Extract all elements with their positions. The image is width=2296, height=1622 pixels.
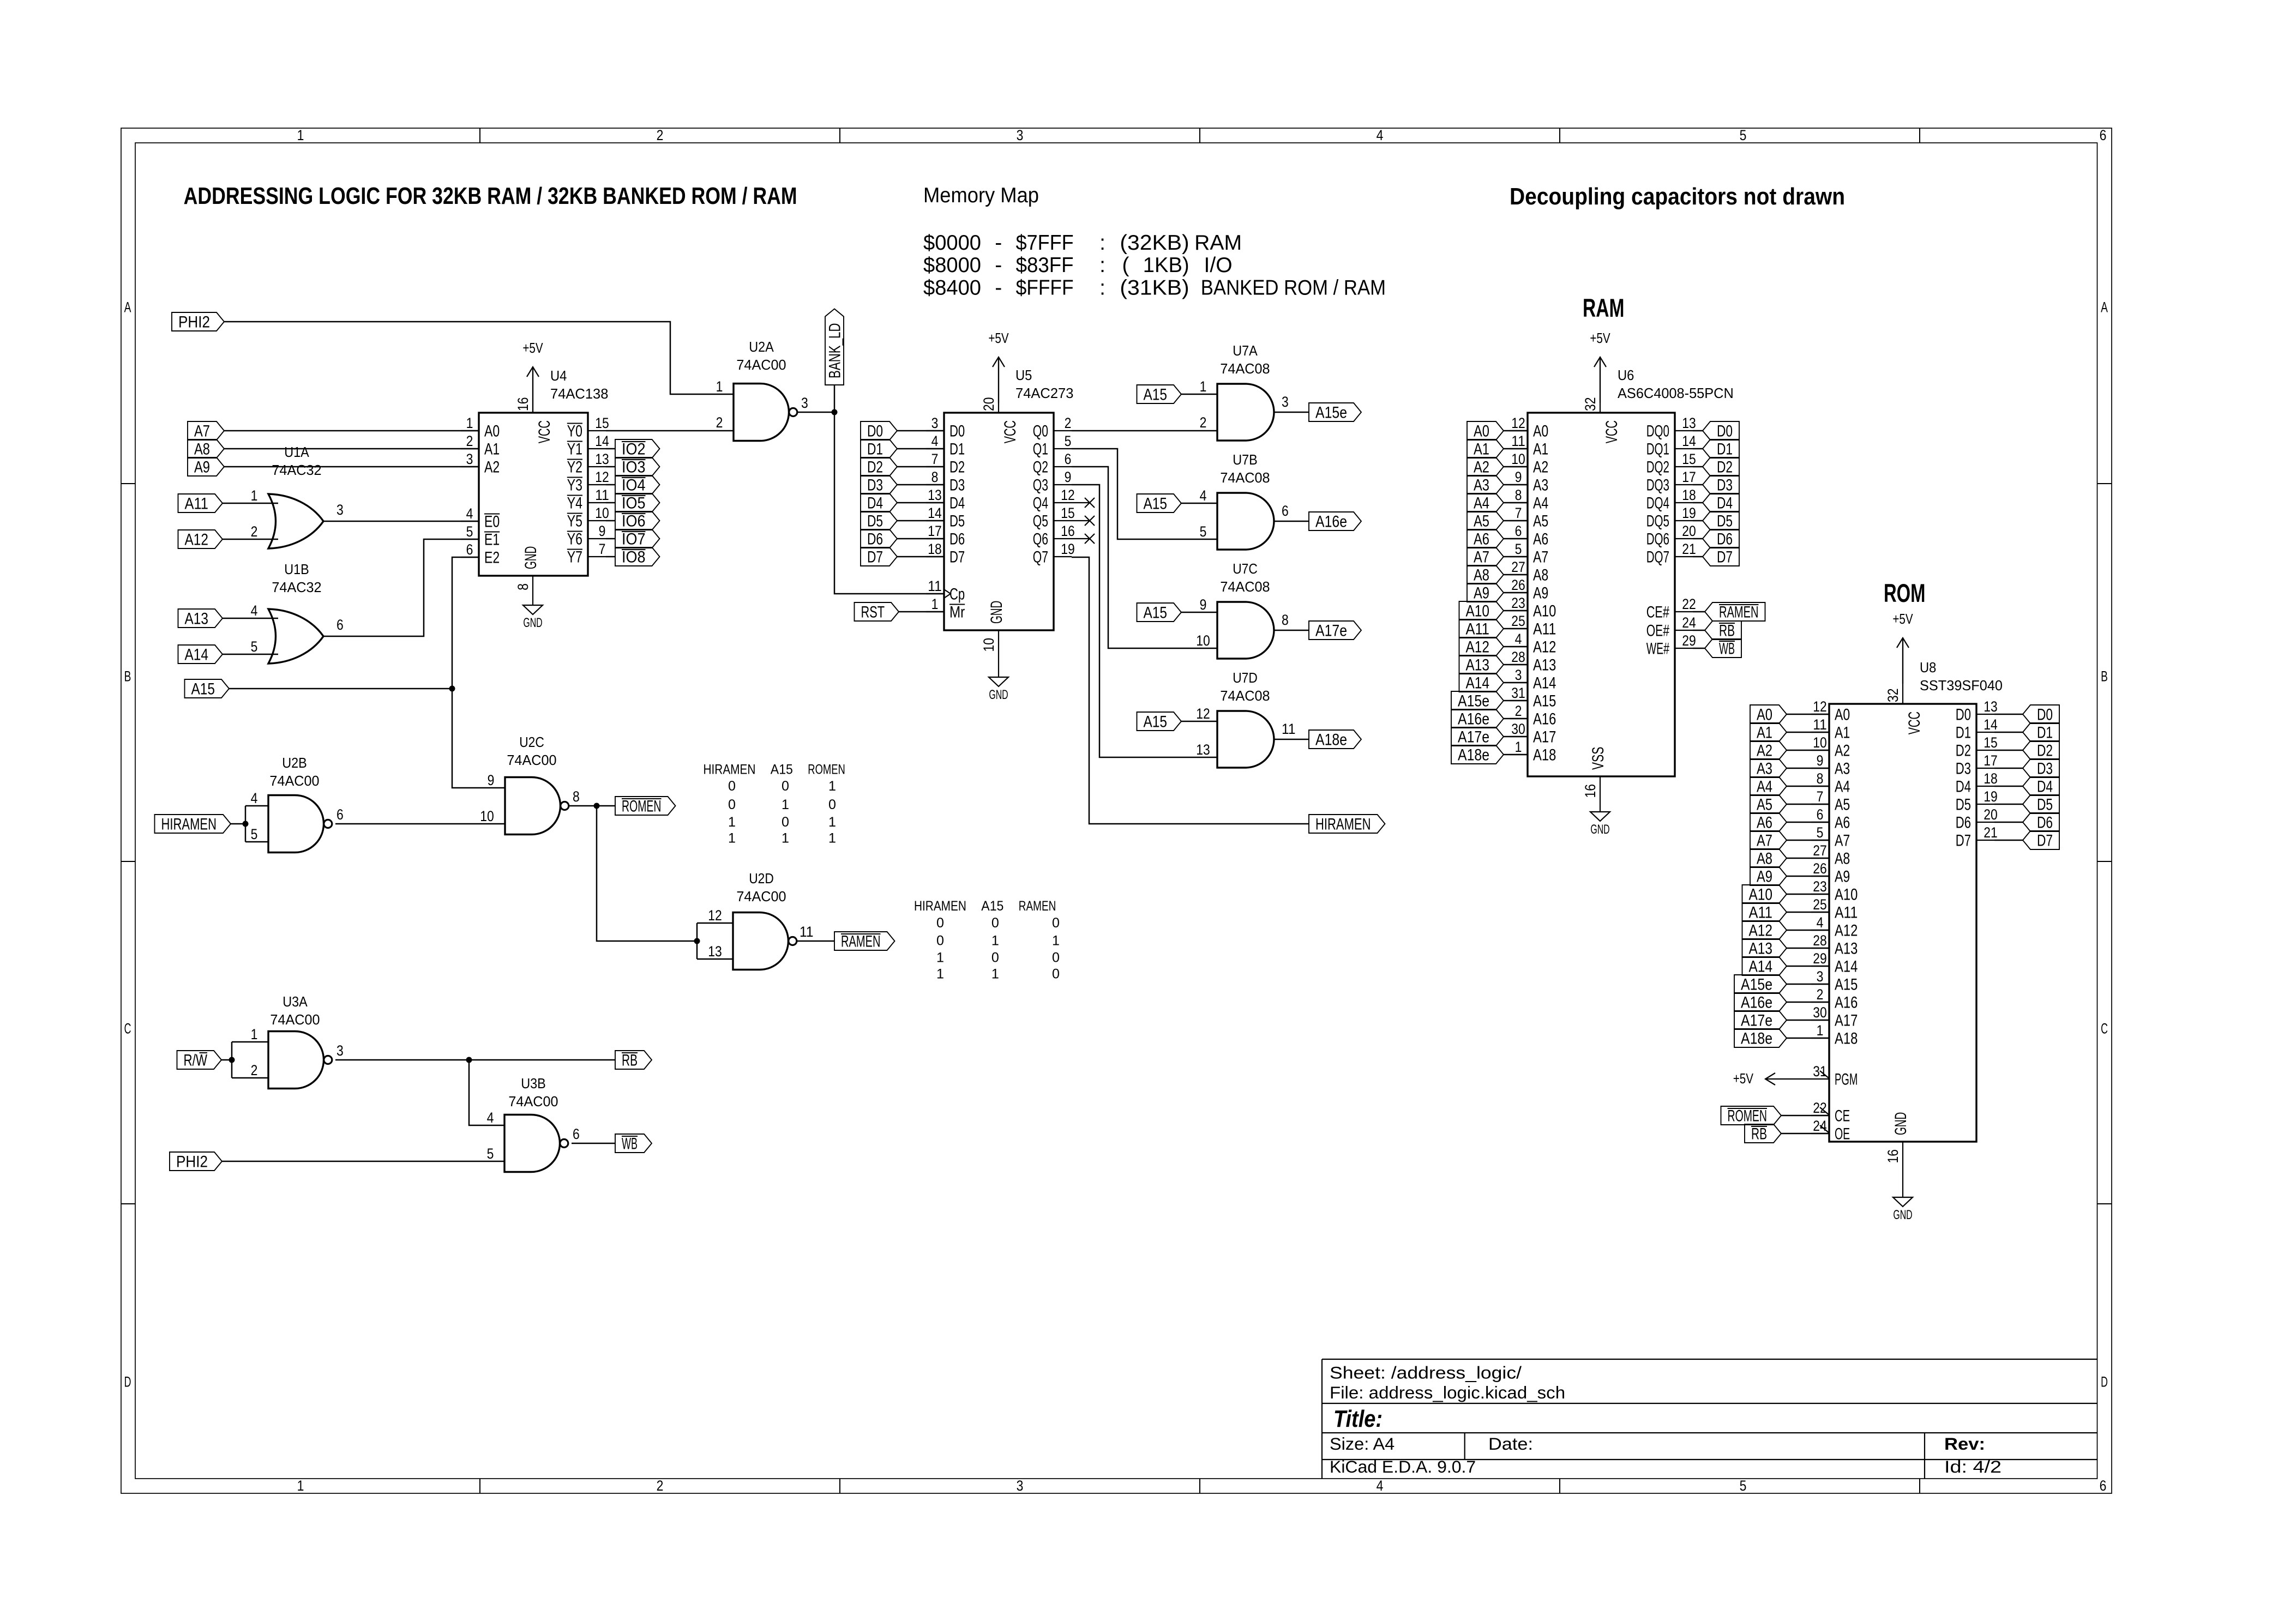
wire D2 label to U5 D2 <box>897 466 944 468</box>
net label D0 (ROM) <box>2023 705 2059 723</box>
svg-text:ROMEN: ROMEN <box>808 762 845 777</box>
svg-text:ROMEN: ROMEN <box>1728 1107 1768 1125</box>
net label IO2 <box>615 439 660 458</box>
svg-text:A8: A8 <box>1835 850 1850 868</box>
wire U4 Y4 to IO5 label <box>606 502 615 504</box>
U6 pin 14 (DQ1) <box>1675 448 1693 449</box>
svg-text:26: 26 <box>1511 577 1525 593</box>
svg-text:D0: D0 <box>949 423 965 441</box>
svg-text:6: 6 <box>1065 451 1072 467</box>
svg-text:4: 4 <box>251 790 258 806</box>
wire U3A out to RB label <box>335 1059 615 1061</box>
svg-text:5: 5 <box>1740 127 1747 143</box>
wire U2D input jog <box>696 923 698 959</box>
svg-text:17: 17 <box>1682 469 1696 485</box>
wire R/W to U3A inputs <box>221 1059 232 1061</box>
svg-text:RST: RST <box>861 604 885 622</box>
wire A10 label to U8 A10 <box>1787 894 1829 895</box>
svg-text:A1: A1 <box>1474 441 1489 459</box>
svg-text:D1: D1 <box>1956 724 1971 742</box>
junction A15/E2 net <box>449 686 455 692</box>
svg-text:1: 1 <box>1817 1022 1824 1039</box>
border column tick top 5 <box>1919 128 1920 143</box>
svg-text:A12: A12 <box>1749 922 1773 940</box>
svg-text:A2: A2 <box>1757 742 1772 760</box>
svg-text:15: 15 <box>1984 734 1998 751</box>
svg-text:A13: A13 <box>185 610 209 628</box>
svg-text:Title:: Title: <box>1333 1406 1383 1432</box>
net label A1 (ROM) <box>1750 723 1787 741</box>
svg-text:PHI2: PHI2 <box>176 1153 208 1171</box>
net label A14 <box>178 645 223 664</box>
svg-text:VSS: VSS <box>1589 747 1607 770</box>
svg-text:A18: A18 <box>1533 746 1556 764</box>
svg-text:4: 4 <box>1377 127 1384 143</box>
svg-text:A15e: A15e <box>1741 976 1772 994</box>
svg-text:A14: A14 <box>185 646 209 664</box>
svg-text:6: 6 <box>336 617 344 633</box>
net label A15e (RAM) <box>1451 691 1504 710</box>
svg-text:U1B: U1B <box>284 562 309 577</box>
U4 pin 16 (VCC) <box>532 367 533 413</box>
U8 pin 27 (A8) <box>1811 858 1829 859</box>
svg-text:U6: U6 <box>1618 368 1634 383</box>
svg-text:25: 25 <box>1813 896 1827 913</box>
wire A5 label to U6 A5 <box>1504 520 1528 522</box>
svg-text:1: 1 <box>782 831 789 846</box>
svg-text:18: 18 <box>1682 487 1696 503</box>
U8 pin 21 (D7) <box>1976 840 1994 841</box>
svg-text:1: 1 <box>828 831 836 846</box>
svg-text:3: 3 <box>466 451 473 467</box>
svg-text:VCC: VCC <box>1906 711 1924 734</box>
wire U6 OE# to RB label <box>1693 630 1705 631</box>
U6 pin 30 (A17) <box>1510 736 1528 737</box>
svg-text:RAMEN: RAMEN <box>1719 604 1759 622</box>
U8 pin 17 (D3) <box>1976 768 1994 769</box>
svg-text:7: 7 <box>599 541 606 557</box>
svg-text:Q4: Q4 <box>1033 495 1048 512</box>
svg-text:16: 16 <box>1582 784 1598 798</box>
IC U4 74AC138 <box>479 413 588 576</box>
wire A12 to U1A pin2 <box>223 539 278 540</box>
nand-gate U2A 74AC00 <box>734 384 789 441</box>
svg-text:32: 32 <box>1885 689 1901 703</box>
svg-text:28: 28 <box>1511 649 1525 665</box>
svg-text:74AC08: 74AC08 <box>1220 689 1270 704</box>
svg-text:20: 20 <box>1682 523 1696 539</box>
border row tick left 2 <box>121 861 135 862</box>
svg-text:5: 5 <box>1065 433 1072 449</box>
U5 pin 11 (Cp) <box>926 593 944 594</box>
svg-text:7: 7 <box>1817 788 1824 805</box>
svg-text:+5V: +5V <box>522 341 543 356</box>
svg-text:6: 6 <box>573 1126 580 1142</box>
U5 pin 2 (Q0) <box>1054 430 1072 431</box>
wire PHI2 to U3B pin5 <box>222 1161 504 1162</box>
svg-text:Y0: Y0 <box>567 423 582 441</box>
IC U5 74AC273 <box>944 413 1054 630</box>
wire A15 label to U7C input <box>1181 612 1217 613</box>
net label D4 (U5 input) <box>861 493 897 512</box>
svg-text:1: 1 <box>931 596 939 612</box>
svg-text:D4: D4 <box>949 495 965 512</box>
svg-text:B: B <box>2101 668 2108 685</box>
svg-text:8: 8 <box>515 583 531 590</box>
svg-text:IO4: IO4 <box>622 477 646 495</box>
svg-text:GND: GND <box>1590 822 1609 837</box>
svg-text:WE#: WE# <box>1646 640 1670 658</box>
IC U6 AS6C4008-55PCN <box>1528 413 1675 776</box>
svg-text:4: 4 <box>251 602 258 619</box>
wire A17 label to U6 A17 <box>1504 736 1528 738</box>
svg-text:3: 3 <box>801 395 808 411</box>
U8 pin 26 (A9) <box>1811 876 1829 877</box>
wire A11 label to U8 A11 <box>1787 912 1829 913</box>
svg-text:31: 31 <box>1511 685 1525 701</box>
svg-text:$8400: $8400 <box>923 276 981 300</box>
svg-text:U1A: U1A <box>284 445 309 460</box>
svg-text:1: 1 <box>728 831 736 846</box>
svg-text:2: 2 <box>466 433 473 449</box>
svg-text:26: 26 <box>1813 860 1827 877</box>
svg-text:12: 12 <box>595 469 609 485</box>
wire U8 D2 to D2 label <box>1994 750 2023 751</box>
U4 pin 15 (Y0) <box>588 430 606 431</box>
U6 pin 24 (OE#) <box>1675 630 1693 631</box>
border column tick bottom 5 <box>1919 1479 1920 1493</box>
svg-text:20: 20 <box>1984 806 1998 823</box>
net label A8 (RAM) <box>1467 565 1504 584</box>
svg-text:R/W: R/W <box>184 1052 208 1070</box>
U8 pin 30 (A17) <box>1811 1020 1829 1021</box>
svg-text:A13: A13 <box>1466 656 1490 674</box>
svg-text:A17e: A17e <box>1458 728 1489 746</box>
wire U5 Q2 to U7C pin10 <box>1072 467 1217 648</box>
svg-text:8: 8 <box>931 469 939 485</box>
svg-text:0: 0 <box>936 933 944 949</box>
svg-text:29: 29 <box>1813 950 1827 967</box>
U5 pin 10 (GND) <box>998 630 999 677</box>
U5 pin 12 (Q4) <box>1054 502 1072 503</box>
svg-text:A14: A14 <box>1466 674 1490 692</box>
svg-text:A18: A18 <box>1835 1030 1858 1048</box>
svg-text:4: 4 <box>1200 487 1207 504</box>
U4 pin 10 (Y5) <box>588 520 606 521</box>
svg-text:18: 18 <box>1984 770 1998 787</box>
net label D2 (RAM) <box>1703 457 1739 476</box>
svg-text:0: 0 <box>782 815 789 830</box>
svg-text:WB: WB <box>1719 640 1735 658</box>
svg-text:0: 0 <box>1052 967 1060 982</box>
svg-text:0: 0 <box>991 915 999 931</box>
svg-text:A8: A8 <box>1757 850 1772 868</box>
svg-text:Date:: Date: <box>1488 1434 1533 1454</box>
svg-text:1: 1 <box>251 487 258 504</box>
svg-text:4: 4 <box>1377 1478 1384 1494</box>
net label RB (RAM OE#) <box>1705 621 1741 640</box>
svg-text:4: 4 <box>1515 631 1522 647</box>
svg-text:A13: A13 <box>1835 940 1858 958</box>
svg-text:U7B: U7B <box>1233 453 1258 468</box>
net label WB (RAM WE#) <box>1705 639 1741 658</box>
svg-text:IO6: IO6 <box>622 512 646 530</box>
svg-text:0: 0 <box>728 779 736 794</box>
svg-text:20: 20 <box>981 397 997 412</box>
svg-text:2: 2 <box>251 523 258 540</box>
svg-text:+5V: +5V <box>1733 1071 1754 1087</box>
wire A15 label to U7A input <box>1181 394 1217 395</box>
svg-text:3: 3 <box>931 415 939 431</box>
border row tick right 3 <box>2097 1203 2112 1204</box>
svg-text::: : <box>1099 254 1105 277</box>
border row tick right 1 <box>2097 483 2112 484</box>
U6 pin 17 (DQ3) <box>1675 484 1693 485</box>
svg-text:14: 14 <box>1984 716 1998 733</box>
wire U4 Y2 to IO3 label <box>606 466 615 468</box>
svg-text:ADDRESSING LOGIC FOR 32KB RAM: ADDRESSING LOGIC FOR 32KB RAM / 32KB BAN… <box>184 183 797 209</box>
svg-text:9: 9 <box>488 772 495 788</box>
net label D5 (U5 input) <box>861 511 897 530</box>
net label A12 <box>178 530 223 548</box>
svg-text:1: 1 <box>297 127 304 143</box>
border column tick bottom 3 <box>1199 1479 1200 1493</box>
U6 pin 13 (DQ0) <box>1675 430 1693 431</box>
U8 pin 7 (A5) <box>1811 804 1829 805</box>
wire A1 label to U8 A1 <box>1787 732 1829 733</box>
U8 pin 29 (A14) <box>1811 966 1829 967</box>
U4 pin 6 (E2) <box>461 557 479 558</box>
svg-text:7: 7 <box>1515 505 1522 521</box>
svg-text:IO8: IO8 <box>622 548 646 566</box>
svg-text:D3: D3 <box>1956 760 1971 778</box>
net label WB (U3B) <box>615 1134 652 1153</box>
net label A11 <box>178 494 223 512</box>
wire U6 DQ6 to D6 label <box>1693 538 1703 540</box>
power GND at U6 <box>1600 811 1601 812</box>
svg-text:D4: D4 <box>1717 495 1733 512</box>
svg-text:D3: D3 <box>2037 760 2053 778</box>
wire U5 Q7 to HIRAMEN label <box>1072 557 1309 824</box>
U6 pin 20 (DQ6) <box>1675 538 1693 539</box>
net label RST <box>855 602 899 621</box>
or-gate U1B 74AC32 <box>268 609 323 664</box>
svg-text:D7: D7 <box>867 548 883 566</box>
svg-text:74AC00: 74AC00 <box>507 753 556 768</box>
svg-text:A9: A9 <box>1757 868 1772 886</box>
net label A17e (RAM) <box>1451 727 1504 746</box>
net label D3 (U5 input) <box>861 475 897 494</box>
svg-text:D7: D7 <box>1717 548 1733 566</box>
svg-text:6: 6 <box>1282 503 1289 519</box>
svg-text:1: 1 <box>1515 739 1522 755</box>
svg-text:74AC138: 74AC138 <box>550 387 608 402</box>
svg-text:Decoupling capacitors not draw: Decoupling capacitors not drawn <box>1510 183 1845 210</box>
wire A8 label to U6 A8 <box>1504 574 1528 576</box>
svg-text:3: 3 <box>336 1042 344 1059</box>
svg-text:IO7: IO7 <box>622 530 646 548</box>
net label D0 (RAM) <box>1703 421 1739 440</box>
svg-text:$83FF: $83FF <box>1016 254 1074 277</box>
svg-text:1: 1 <box>728 815 736 830</box>
net label A14 (RAM) <box>1459 673 1504 692</box>
svg-text:5: 5 <box>1200 523 1207 540</box>
wire A8 label to U8 A8 <box>1787 858 1829 859</box>
svg-text:OE: OE <box>1835 1125 1850 1143</box>
svg-text:HIRAMEN: HIRAMEN <box>1315 816 1371 834</box>
svg-text:5: 5 <box>487 1145 494 1162</box>
svg-text:12: 12 <box>1813 698 1827 715</box>
svg-text:10: 10 <box>595 505 609 521</box>
wire U6 DQ5 to D5 label <box>1693 520 1703 522</box>
U6 pin 10 (A2) <box>1510 466 1528 467</box>
U6 pin 1 (A18) <box>1510 754 1528 755</box>
svg-text:9: 9 <box>1200 596 1207 613</box>
svg-text:1: 1 <box>1200 378 1207 395</box>
wire A7 to U4 A0 <box>224 430 479 432</box>
svg-text:2: 2 <box>1515 703 1522 719</box>
U4 pin 8 (GND) <box>532 576 533 605</box>
svg-text:74AC00: 74AC00 <box>269 774 319 789</box>
net label D6 (U5 input) <box>861 529 897 548</box>
wire A12 label to U8 A12 <box>1787 930 1829 931</box>
svg-text:$8000: $8000 <box>923 254 981 277</box>
wire A4 label to U6 A4 <box>1504 502 1528 504</box>
net label A7 (ROM) <box>1750 831 1787 849</box>
svg-text:3: 3 <box>1017 1478 1024 1494</box>
svg-text:4: 4 <box>487 1110 494 1126</box>
U8 pin 24 (OE) <box>1811 1133 1829 1134</box>
svg-text:D7: D7 <box>949 548 965 566</box>
net label A16e (ROM) <box>1734 993 1787 1011</box>
svg-text:CE: CE <box>1835 1107 1850 1125</box>
svg-text:10: 10 <box>1196 632 1210 649</box>
svg-text:D3: D3 <box>949 477 965 495</box>
svg-text:Y4: Y4 <box>567 495 582 512</box>
svg-text:14: 14 <box>1682 433 1696 449</box>
net label A12 (RAM) <box>1459 637 1504 656</box>
net label D7 (RAM) <box>1703 547 1739 566</box>
svg-text:GND: GND <box>522 546 540 569</box>
net label A10 (ROM) <box>1742 885 1787 903</box>
svg-text:12: 12 <box>1196 706 1210 722</box>
svg-text:A7: A7 <box>1533 548 1548 566</box>
svg-text:-: - <box>995 254 1002 277</box>
svg-text:16: 16 <box>1061 523 1075 539</box>
wire HIRAMEN to U2B inputs <box>231 823 245 825</box>
svg-text:A0: A0 <box>1757 706 1772 724</box>
svg-text:SST39SF040: SST39SF040 <box>1920 678 2003 694</box>
svg-text:-: - <box>995 231 1002 255</box>
svg-text:14: 14 <box>595 433 609 449</box>
svg-text:5: 5 <box>251 826 258 842</box>
svg-text:A14: A14 <box>1749 958 1773 976</box>
svg-text:5: 5 <box>466 523 473 540</box>
svg-text:24: 24 <box>1682 614 1696 631</box>
svg-text:6: 6 <box>1817 806 1824 823</box>
svg-text:9: 9 <box>1817 752 1824 769</box>
svg-text:3: 3 <box>1017 127 1024 143</box>
svg-text:A18e: A18e <box>1315 731 1347 749</box>
net label ROMEN (ROM CE) <box>1721 1106 1782 1125</box>
junction R/W at U3A <box>229 1057 235 1063</box>
svg-text:8: 8 <box>1817 770 1824 787</box>
svg-text:D2: D2 <box>867 459 883 477</box>
svg-text:DQ3: DQ3 <box>1646 477 1669 495</box>
svg-text:C: C <box>2101 1021 2108 1037</box>
svg-text:10: 10 <box>1511 451 1525 467</box>
svg-text:0: 0 <box>782 779 789 794</box>
wire U2B out to U2C pin10 <box>335 823 505 825</box>
U5 pin 8 (D3) <box>926 484 944 485</box>
U6 pin 11 (A1) <box>1510 448 1528 449</box>
wire A3 label to U6 A3 <box>1504 484 1528 486</box>
wire U7B output to A16e label <box>1274 521 1309 522</box>
wire D0 label to U5 D0 <box>897 430 944 432</box>
svg-text:1: 1 <box>991 933 999 949</box>
svg-text:30: 30 <box>1511 721 1525 737</box>
svg-text:A8: A8 <box>1474 566 1489 584</box>
svg-text:DQ5: DQ5 <box>1646 512 1669 530</box>
net label A14 (ROM) <box>1742 957 1787 975</box>
svg-text:D0: D0 <box>1956 706 1971 724</box>
svg-text:E0: E0 <box>484 513 500 531</box>
svg-text:A11: A11 <box>1835 904 1858 922</box>
net label A6 (ROM) <box>1750 813 1787 831</box>
svg-text:Rev:: Rev: <box>1944 1434 1985 1454</box>
wire U8 D4 to D4 label <box>1994 786 2023 787</box>
net label D4 (ROM) <box>2023 777 2059 795</box>
U4 pin 1 (A0) <box>461 430 479 431</box>
svg-text:1: 1 <box>991 967 999 982</box>
svg-text:U3A: U3A <box>283 994 308 1010</box>
net label D1 (RAM) <box>1703 439 1739 458</box>
border column tick top 2 <box>839 128 840 143</box>
svg-text:IO3: IO3 <box>622 459 646 477</box>
net label RB (ROM OE) <box>1745 1124 1781 1143</box>
svg-text:RAMEN: RAMEN <box>841 933 881 951</box>
svg-text:5: 5 <box>1740 1478 1747 1494</box>
net label A6 (RAM) <box>1467 529 1504 548</box>
svg-text:74AC08: 74AC08 <box>1220 580 1270 595</box>
border row tick left 1 <box>121 483 135 484</box>
net label A12 (ROM) <box>1742 921 1787 939</box>
net label D1 (U5 input) <box>861 439 897 458</box>
U4 pin 9 (Y6) <box>588 538 606 539</box>
svg-text:A16: A16 <box>1835 994 1858 1012</box>
svg-text:A7: A7 <box>194 423 210 441</box>
svg-text:0: 0 <box>828 797 836 812</box>
svg-text:Q5: Q5 <box>1033 512 1048 530</box>
svg-text:1: 1 <box>828 815 836 830</box>
net label A1 (RAM) <box>1467 439 1504 458</box>
net label RAMEN <box>834 932 895 950</box>
U4 pin 5 (E1) <box>461 539 479 540</box>
U6 pin 25 (A11) <box>1510 628 1528 629</box>
svg-text:27: 27 <box>1813 842 1827 859</box>
svg-text:A4: A4 <box>1757 778 1772 796</box>
net label A15 at U7B <box>1137 494 1182 512</box>
net label RAMEN (RAM CE#) <box>1705 602 1765 621</box>
svg-text:4: 4 <box>931 433 939 449</box>
wire A9 to U4 A2 <box>224 466 479 468</box>
U8 pin 9 (A3) <box>1811 768 1829 769</box>
U8 pin 19 (D5) <box>1976 804 1994 805</box>
svg-text:A16e: A16e <box>1315 513 1347 531</box>
U5 pin 19 (Q7) <box>1054 556 1072 557</box>
net label HIRAMEN (right) <box>1309 815 1385 833</box>
svg-text:Y2: Y2 <box>567 459 582 477</box>
